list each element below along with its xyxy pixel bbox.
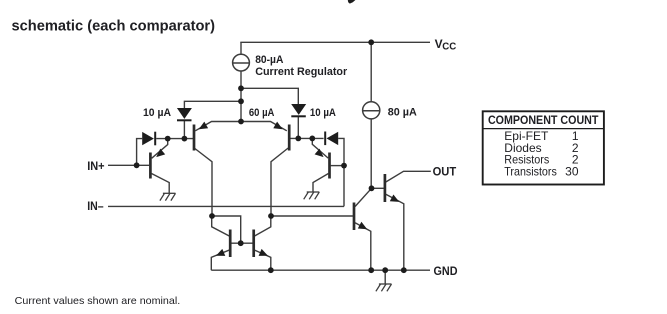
wire: branch to right 10uA diode D2 xyxy=(241,88,298,104)
wire: Q8 base xyxy=(372,187,384,189)
svg-text:CC: CC xyxy=(442,42,456,53)
transistor Q5 (mirror left, diode connected) xyxy=(216,230,230,258)
wire: Q7 collector xyxy=(355,188,371,206)
wire: IN- rail xyxy=(108,205,344,207)
wire: Q8 collector to OUT xyxy=(386,171,431,182)
node: IN- base junction xyxy=(341,163,347,169)
node: Q8 emitter on GND rail xyxy=(401,267,407,273)
wire: D1 cathode to base line xyxy=(183,121,185,139)
wire: GND bottom rail xyxy=(211,269,430,271)
wire: Q7 emitter xyxy=(355,223,371,270)
svg-text:IN+: IN+ xyxy=(87,161,105,173)
svg-text:IN–: IN– xyxy=(87,201,104,213)
wire: Q3 collector to ground G2 xyxy=(313,174,328,193)
transistor Q3 (IN- input PNP) xyxy=(315,149,330,179)
svg-text:Current Regulator: Current Regulator xyxy=(255,66,348,78)
transistor Q1 (IN+ input PNP) xyxy=(150,149,165,179)
wire: D2 cathode to base line xyxy=(297,117,299,138)
ground G2 (Q3 collector) xyxy=(304,192,320,199)
wire: branch to left 10uA diode D1 xyxy=(184,101,241,108)
wire: Q3 base xyxy=(331,165,344,167)
ground G3 (GND rail) xyxy=(376,284,392,291)
node: Q7 emitter on GND rail xyxy=(368,267,374,273)
wire: clamp line D3 to Q2 base xyxy=(156,138,193,140)
transistor Q2 (left center PNP) xyxy=(194,122,208,151)
wire: current regulator CS1 down the center column xyxy=(240,71,242,122)
node: IN+ base junction xyxy=(134,162,140,168)
node: Q6 emitter on GND rail xyxy=(268,267,274,273)
wire: 60uA arm to Q4 emitter xyxy=(241,122,287,131)
diode D2 (right 10 uA) xyxy=(291,104,306,117)
node: regulator output upper xyxy=(238,85,244,91)
stray glyph fragment at top edge xyxy=(348,0,356,4)
node: D1 cathode junction xyxy=(182,136,188,142)
wire: Q8 emitter xyxy=(386,194,404,270)
wire: Q5 emitter xyxy=(211,250,230,271)
wire: IN+ clamp riser to D3 xyxy=(137,139,143,166)
wire: VCC tap to 80uA source CS2 xyxy=(370,42,372,101)
node: Q1 emitter junction xyxy=(165,136,171,142)
current regulator CS1 (80-uA) xyxy=(233,54,250,71)
node: Q8 base junction xyxy=(369,185,375,191)
transistor Q4 (right center PNP) xyxy=(273,122,289,151)
wire: ground stem G3 xyxy=(384,270,386,284)
wire: 60uA arm to Q2 emitter xyxy=(195,122,241,131)
node: ground stem on GND rail xyxy=(382,267,388,273)
node: Q3 emitter junction xyxy=(309,136,315,142)
wire: mirror base link xyxy=(230,242,254,244)
diode D1 (left 10 uA) xyxy=(177,108,192,121)
wire: second stage to Q7 base xyxy=(271,215,353,217)
wire: Q4 base line to clamp D4 xyxy=(290,137,323,139)
diode D3 (IN+ clamp) xyxy=(142,132,156,146)
wire: clamp D4 anode to IN- riser xyxy=(338,138,344,206)
svg-text:OUT: OUT xyxy=(433,167,457,179)
svg-text:COMPONENT COUNT: COMPONENT COUNT xyxy=(488,113,599,127)
svg-text:schematic (each comparator): schematic (each comparator) xyxy=(12,17,216,34)
svg-text:Current values shown are nomin: Current values shown are nominal. xyxy=(15,296,181,307)
wire: Q4 collector down to second stage xyxy=(271,148,288,216)
node: VCC 80uA tap xyxy=(368,39,374,45)
node: mirror base junction xyxy=(238,240,244,246)
node: right second stage junction xyxy=(268,213,274,219)
wire: Q6 emitter xyxy=(254,250,271,271)
wire: Q6 collector xyxy=(254,216,271,237)
svg-text:30: 30 xyxy=(565,165,579,179)
wire: Q3 emitter xyxy=(312,138,328,158)
diode D4 (IN- clamp) xyxy=(324,132,338,146)
wire: mirror tie to base node xyxy=(212,216,241,243)
svg-text:Transistors: Transistors xyxy=(504,165,557,179)
wire: Q5 collector xyxy=(212,216,231,237)
current source CS2 (80 uA) xyxy=(363,102,380,119)
node: regulator output lower xyxy=(238,98,244,104)
svg-text:80-µA: 80-µA xyxy=(255,54,283,66)
svg-text:GND: GND xyxy=(434,266,458,278)
node: left second stage junction xyxy=(209,213,215,219)
wire: VCC rail xyxy=(240,41,430,43)
wire: VCC rail to current regulator CS1 xyxy=(240,42,242,54)
node: 60uA emitter node xyxy=(238,119,244,125)
transistor Q6 (mirror right) xyxy=(254,230,268,258)
node: D2 cathode junction xyxy=(295,136,301,142)
wire: Q1 collector to ground G1 xyxy=(152,174,170,194)
component count table xyxy=(483,111,604,184)
transistor Q8 (output NPN) xyxy=(385,174,399,202)
wire: IN+ lead to Q1 base xyxy=(108,164,149,166)
wire: CS2 to Q8 base node xyxy=(370,119,372,188)
svg-text:10 µA: 10 µA xyxy=(310,107,336,119)
wire: Q2 collector down to second stage xyxy=(194,148,212,216)
ground G1 (Q1 collector) xyxy=(160,193,176,200)
svg-text:10 µA: 10 µA xyxy=(143,107,171,119)
wire: Q1 emitter xyxy=(152,139,168,159)
transistor Q7 (driver NPN) xyxy=(354,203,367,231)
svg-text:60 µA: 60 µA xyxy=(249,107,275,119)
svg-text:80 µA: 80 µA xyxy=(388,107,417,119)
